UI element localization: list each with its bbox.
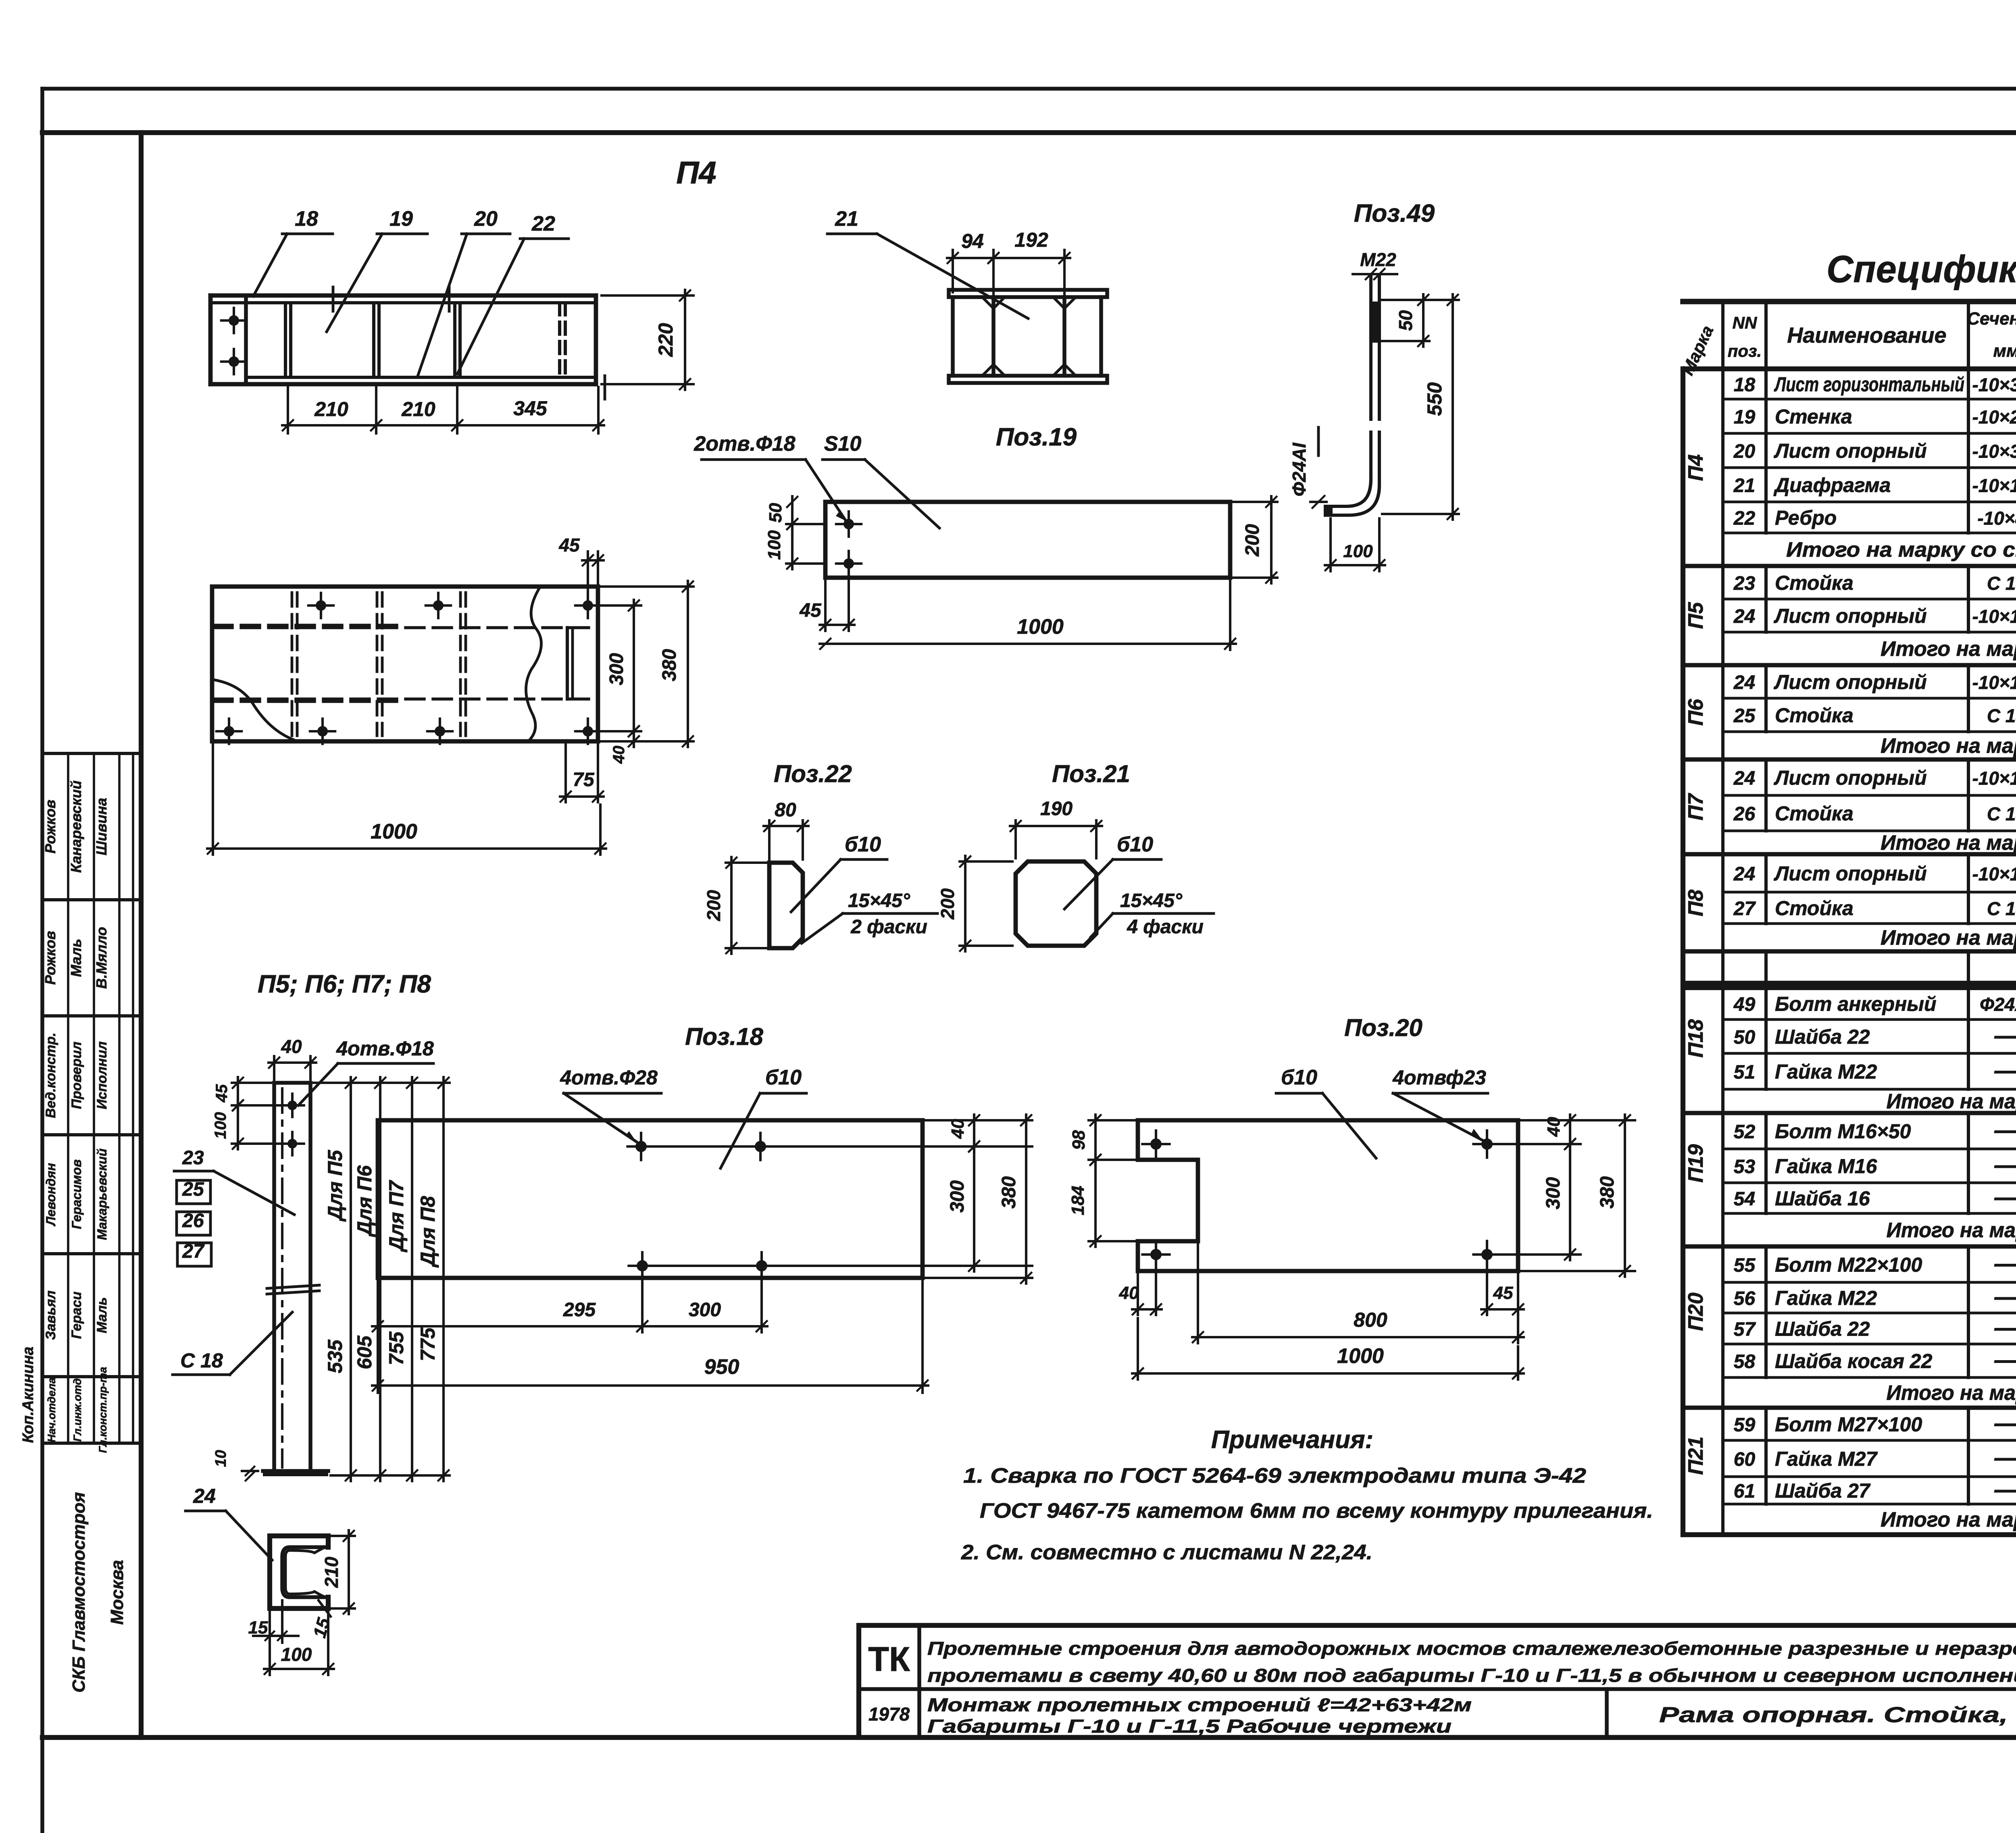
svg-text:53: 53 bbox=[1734, 1156, 1756, 1178]
svg-text:Рожков: Рожков bbox=[42, 931, 58, 985]
svg-text:23: 23 bbox=[1733, 573, 1756, 594]
svg-text:Левондян: Левондян bbox=[44, 1163, 58, 1226]
П5-П8 holes bbox=[281, 1094, 304, 1155]
svg-text:П5; П6; П7; П8: П5; П6; П7; П8 bbox=[258, 970, 431, 998]
svg-text:19: 19 bbox=[1734, 407, 1756, 428]
title block main title bbox=[927, 1638, 2016, 1686]
svg-text:—: — bbox=[1994, 1476, 2016, 1503]
svg-text:10: 10 bbox=[212, 1450, 229, 1467]
svg-text:21: 21 bbox=[835, 207, 858, 231]
leader 4отвф23 bbox=[1392, 1066, 1488, 1140]
organisation cell СКБ Главмостостроя Москва bbox=[69, 1492, 127, 1693]
svg-text:М22: М22 bbox=[1360, 249, 1396, 270]
svg-text:П7: П7 bbox=[1684, 793, 1708, 820]
svg-text:40: 40 bbox=[948, 1119, 968, 1139]
svg-text:380: 380 bbox=[659, 649, 680, 681]
svg-text:75: 75 bbox=[573, 769, 595, 791]
svg-text:б10: б10 bbox=[1117, 833, 1153, 856]
Марка column labels bbox=[1684, 454, 1708, 1475]
svg-text:23: 23 bbox=[182, 1147, 204, 1169]
svg-text:80: 80 bbox=[775, 799, 796, 821]
leader б10 Поз.22 bbox=[791, 833, 887, 912]
leader 4отв.Ф28 bbox=[560, 1066, 661, 1142]
dimension 190 Поз.21 bbox=[1010, 798, 1102, 858]
svg-text:Для П8: Для П8 bbox=[417, 1196, 439, 1268]
svg-text:Поз.19: Поз.19 bbox=[996, 423, 1077, 451]
svg-text:Болт М27×100: Болт М27×100 bbox=[1775, 1413, 1922, 1436]
svg-text:—: — bbox=[1994, 1151, 2016, 1178]
dimension 45 Поз.19 bbox=[799, 570, 854, 631]
leader 21 bbox=[827, 207, 1028, 318]
svg-text:345: 345 bbox=[513, 397, 548, 420]
svg-text:поз.: поз. bbox=[1728, 341, 1762, 360]
svg-text:18: 18 bbox=[1734, 375, 1756, 396]
svg-text:-10×190: -10×190 bbox=[1972, 475, 2016, 496]
svg-text:Итого на марку:: Итого на марку: bbox=[1881, 637, 2016, 661]
svg-text:192: 192 bbox=[1014, 229, 1048, 251]
П5-П8 column outline bbox=[274, 1083, 310, 1471]
svg-text:45: 45 bbox=[558, 535, 580, 556]
svg-text:Проверил: Проверил bbox=[69, 1042, 84, 1109]
svg-text:Лист опорный: Лист опорный bbox=[1774, 671, 1927, 693]
svg-text:50: 50 bbox=[1395, 310, 1416, 331]
svg-text:57: 57 bbox=[1734, 1319, 1756, 1340]
dimensions 295/300 bottom of Поз.18 bbox=[372, 1273, 767, 1393]
svg-text:24: 24 bbox=[1733, 863, 1755, 885]
svg-text:Гайка М22: Гайка М22 bbox=[1775, 1287, 1877, 1309]
dimensions 15/15 (channel) bbox=[248, 1600, 334, 1643]
svg-text:100: 100 bbox=[1343, 541, 1373, 561]
svg-text:49: 49 bbox=[1733, 994, 1756, 1015]
svg-text:Наименование: Наименование bbox=[1787, 323, 1946, 347]
svg-text:Шайба косая 22: Шайба косая 22 bbox=[1775, 1350, 1933, 1373]
П4 weld tick marks bbox=[333, 287, 605, 399]
svg-text:Нач.отдела: Нач.отдела bbox=[46, 1377, 58, 1442]
svg-text:210: 210 bbox=[314, 398, 348, 420]
svg-text:26: 26 bbox=[182, 1210, 204, 1232]
svg-text:С 18: С 18 bbox=[1987, 573, 2016, 594]
svg-text:45: 45 bbox=[213, 1084, 231, 1103]
svg-text:П4: П4 bbox=[676, 155, 716, 190]
specification table header bbox=[1678, 302, 2016, 378]
leader б10 Поз.18 bbox=[721, 1066, 806, 1168]
svg-text:54: 54 bbox=[1734, 1188, 1755, 1210]
title block frame bbox=[859, 1625, 2016, 1737]
П4 plan holes bbox=[217, 593, 600, 744]
dimension 80 Поз.22 bbox=[764, 799, 808, 859]
svg-text:Поз.22: Поз.22 bbox=[774, 760, 852, 787]
svg-text:Лист горизонтальный: Лист горизонтальный bbox=[1774, 373, 1964, 396]
П4 plan view outline bbox=[212, 587, 598, 741]
svg-text:4отв.Ф28: 4отв.Ф28 bbox=[560, 1066, 658, 1089]
svg-text:Поз.21: Поз.21 bbox=[1052, 760, 1130, 787]
dimension ladder Для П5..П8 bbox=[314, 1077, 450, 1481]
dimension 100 (foot) bbox=[1325, 518, 1385, 571]
dimension 94/192 bbox=[947, 229, 1070, 294]
svg-text:100: 100 bbox=[212, 1112, 229, 1139]
dimension 210 (channel) bbox=[321, 1530, 355, 1614]
svg-text:Болт анкерный: Болт анкерный bbox=[1775, 993, 1937, 1015]
svg-text:Коп.Акинина: Коп.Акинина bbox=[20, 1346, 37, 1443]
svg-text:Итого на марку: Итого на марку bbox=[1887, 1090, 2016, 1113]
svg-text:605: 605 bbox=[353, 1335, 376, 1369]
svg-text:Вед.констр.: Вед.констр. bbox=[43, 1032, 58, 1118]
svg-text:2. См. совместно с листами N 2: 2. См. совместно с листами N 22,24. bbox=[961, 1541, 1372, 1564]
svg-text:2 фаски: 2 фаски bbox=[850, 916, 927, 938]
svg-text:—: — bbox=[1994, 1022, 2016, 1049]
svg-text:21: 21 bbox=[1733, 475, 1755, 497]
svg-text:Лист опорный: Лист опорный bbox=[1774, 440, 1927, 462]
svg-text:950: 950 bbox=[704, 1355, 739, 1379]
svg-text:51: 51 bbox=[1734, 1062, 1755, 1083]
svg-text:С 18: С 18 bbox=[1987, 705, 2016, 726]
svg-text:22: 22 bbox=[1733, 508, 1756, 529]
leader 19 bbox=[327, 207, 427, 332]
svg-text:Рама опорная. Стойка, Марки. Д: Рама опорная. Стойка, Марки. Детали bbox=[1659, 1703, 2016, 1727]
svg-text:-10×100: -10×100 bbox=[1972, 672, 2016, 693]
labels 23/25/26/27 bbox=[174, 1147, 294, 1266]
П4 end plate holes bbox=[221, 308, 246, 374]
leader 24 bbox=[185, 1485, 272, 1560]
svg-text:20: 20 bbox=[474, 207, 498, 231]
svg-text:ГОСТ 9467-75 катетом 6мм по вс: ГОСТ 9467-75 катетом 6мм по всему контур… bbox=[980, 1499, 1653, 1523]
dimension 10 (base) bbox=[212, 1450, 258, 1481]
svg-text:Гайка М22: Гайка М22 bbox=[1775, 1061, 1877, 1083]
dimension 50/100 left of Поз.19 bbox=[764, 496, 823, 569]
svg-text:40: 40 bbox=[281, 1036, 302, 1057]
svg-text:2отв.Ф18: 2отв.Ф18 bbox=[694, 432, 795, 456]
leader 2отв.Ф18 bbox=[694, 432, 846, 521]
dimension 45/100 П5-П8 bbox=[212, 1077, 287, 1149]
leader С18 bbox=[173, 1312, 292, 1375]
svg-text:Монтаж пролетных строений ℓ=42: Монтаж пролетных строений ℓ=42+63+42м bbox=[927, 1694, 1472, 1715]
svg-text:184: 184 bbox=[1068, 1186, 1088, 1215]
svg-text:В.Мялло: В.Мялло bbox=[93, 927, 110, 989]
svg-text:Стойка: Стойка bbox=[1775, 897, 1854, 920]
П5-П8 break mark bbox=[267, 1285, 319, 1294]
svg-text:1. Сварка по ГОСТ 5264-69 эл: 1. Сварка по ГОСТ 5264-69 электродами ти… bbox=[963, 1464, 1586, 1488]
svg-text:NN: NN bbox=[1733, 313, 1758, 332]
dimension 300/380/40 (plan right) bbox=[595, 581, 694, 764]
svg-text:50: 50 bbox=[766, 503, 785, 522]
svg-text:Рожков: Рожков bbox=[42, 800, 58, 854]
svg-text:Канаревский: Канаревский bbox=[68, 780, 84, 873]
title block subtitle bbox=[927, 1694, 1472, 1737]
svg-text:—: — bbox=[1994, 1117, 2016, 1144]
svg-text:200: 200 bbox=[703, 890, 724, 921]
svg-text:П5: П5 bbox=[1684, 602, 1708, 629]
svg-text:Итого на марку:: Итого на марку: bbox=[1881, 734, 2016, 758]
svg-text:П6: П6 bbox=[1684, 699, 1708, 726]
svg-text:б10: б10 bbox=[845, 833, 881, 856]
specification table block П18-П21 grid bbox=[1683, 988, 2016, 1535]
svg-text:Для П7: Для П7 bbox=[385, 1180, 408, 1253]
svg-text:15×45°: 15×45° bbox=[848, 890, 910, 911]
svg-text:Примечания:: Примечания: bbox=[1211, 1426, 1373, 1454]
leader 22 bbox=[457, 212, 569, 374]
svg-text:—: — bbox=[1994, 1184, 2016, 1211]
svg-text:Ф24АI: Ф24АI bbox=[1980, 994, 2016, 1015]
svg-text:-10×100: -10×100 bbox=[1972, 863, 2016, 884]
svg-text:220: 220 bbox=[654, 323, 677, 357]
svg-text:П18: П18 bbox=[1684, 1019, 1708, 1057]
dimension 40 П5-П8 bbox=[269, 1036, 316, 1080]
svg-text:Герасимов: Герасимов bbox=[69, 1159, 84, 1229]
svg-text:Завьял: Завьял bbox=[43, 1290, 58, 1340]
svg-text:Стенка: Стенка bbox=[1775, 406, 1852, 428]
leader 18 bbox=[253, 207, 333, 296]
svg-text:—: — bbox=[1994, 1250, 2016, 1277]
svg-text:—: — bbox=[1994, 1346, 2016, 1373]
svg-text:190: 190 bbox=[1040, 798, 1073, 820]
П4 end view section bbox=[949, 290, 1107, 383]
dimension 550 bbox=[1382, 294, 1459, 520]
П4 plan hidden beam edges bbox=[214, 625, 596, 701]
svg-text:Лист опорный: Лист опорный bbox=[1774, 767, 1927, 789]
dimension 200 Поз.22 bbox=[703, 857, 766, 954]
svg-text:Ф24АI: Ф24АI bbox=[1289, 442, 1310, 496]
svg-text:60: 60 bbox=[1734, 1449, 1756, 1470]
specification table block П4-П8 grid bbox=[1683, 369, 2016, 983]
svg-text:Маль: Маль bbox=[94, 1297, 110, 1333]
svg-text:—: — bbox=[1994, 1314, 2016, 1341]
svg-text:56: 56 bbox=[1734, 1288, 1756, 1309]
svg-text:25: 25 bbox=[182, 1179, 204, 1200]
П4 stiffeners bbox=[285, 303, 565, 377]
svg-text:Стойка: Стойка bbox=[1775, 802, 1854, 825]
dimension 45 (plan top right) bbox=[558, 535, 604, 600]
svg-text:61: 61 bbox=[1734, 1481, 1755, 1502]
svg-text:45: 45 bbox=[799, 600, 822, 621]
svg-text:Диафрагма: Диафрагма bbox=[1773, 474, 1891, 497]
svg-text:Лист опорный: Лист опорный bbox=[1774, 862, 1927, 885]
svg-text:Итого на марку со сварными шва: Итого на марку со сварными швами: bbox=[1786, 538, 2016, 562]
svg-text:Итого на марку: Итого на марку bbox=[1887, 1219, 2016, 1242]
svg-text:4отв.Ф18: 4отв.Ф18 bbox=[336, 1037, 434, 1060]
svg-text:24: 24 bbox=[193, 1485, 216, 1507]
svg-text:-10×100: -10×100 bbox=[1972, 606, 2016, 627]
svg-text:—: — bbox=[1994, 1283, 2016, 1310]
notes Примечания bbox=[961, 1426, 1653, 1564]
svg-text:С 18: С 18 bbox=[180, 1349, 223, 1372]
Поз.49 bolt shaft bbox=[1324, 275, 1380, 517]
svg-text:Сечение,: Сечение, bbox=[1967, 309, 2016, 329]
Поз.20 holes bbox=[1142, 1130, 1500, 1268]
svg-text:24: 24 bbox=[1733, 672, 1755, 693]
svg-text:775: 775 bbox=[417, 1327, 439, 1361]
svg-text:Болт М22×100: Болт М22×100 bbox=[1775, 1254, 1922, 1276]
Поз.21 plate outline bbox=[1016, 861, 1096, 946]
П4 plan hidden stiffeners bbox=[292, 593, 573, 736]
Поз.18 plate outline bbox=[378, 1120, 923, 1278]
П4 plan break lines bbox=[215, 587, 541, 741]
svg-text:Итого на марку: Итого на марку bbox=[1887, 1382, 2016, 1405]
svg-text:25: 25 bbox=[1733, 705, 1756, 727]
svg-text:210: 210 bbox=[401, 398, 435, 420]
svg-text:1978: 1978 bbox=[868, 1704, 910, 1725]
П5-П8 base plate bbox=[263, 1471, 328, 1476]
dimension 200 Поз.21 bbox=[937, 856, 1012, 951]
svg-text:40: 40 bbox=[610, 746, 628, 764]
svg-text:15: 15 bbox=[310, 1616, 334, 1640]
svg-text:ТК: ТК bbox=[868, 1640, 910, 1679]
svg-text:-10×200: -10×200 bbox=[1972, 407, 2016, 428]
dimensions 40/300/380 right of Поз.18 bbox=[647, 1115, 1032, 1284]
svg-text:24: 24 bbox=[1733, 768, 1755, 789]
leader б10 Поз.20 bbox=[1276, 1066, 1376, 1158]
svg-text:С 18: С 18 bbox=[1987, 898, 2016, 919]
svg-text:Гл.инж.отд: Гл.инж.отд bbox=[71, 1378, 83, 1442]
svg-text:Поз.18: Поз.18 bbox=[685, 1023, 763, 1050]
leader б10 Поз.21 bbox=[1064, 833, 1161, 909]
svg-text:1000: 1000 bbox=[371, 820, 417, 843]
svg-text:Для П5: Для П5 bbox=[324, 1150, 346, 1222]
Поз.22 plate outline bbox=[769, 863, 803, 948]
svg-text:300: 300 bbox=[947, 1180, 968, 1213]
svg-text:380: 380 bbox=[998, 1176, 1020, 1209]
svg-text:300: 300 bbox=[1543, 1177, 1564, 1209]
dimension 100 (channel) bbox=[264, 1612, 334, 1675]
Поз.18 holes bbox=[627, 1133, 775, 1279]
svg-text:40: 40 bbox=[1119, 1283, 1139, 1303]
svg-text:50: 50 bbox=[1734, 1027, 1756, 1048]
svg-text:100: 100 bbox=[764, 530, 784, 560]
svg-text:26: 26 bbox=[1733, 803, 1756, 825]
dimension М22 bbox=[1353, 249, 1397, 279]
svg-text:Стойка: Стойка bbox=[1775, 704, 1854, 727]
dimension 210/210/345 under П4 bbox=[282, 387, 604, 433]
svg-text:Гайка М16: Гайка М16 bbox=[1775, 1155, 1877, 1178]
svg-text:Гераси: Гераси bbox=[69, 1292, 84, 1339]
svg-text:-10×380: -10×380 bbox=[1972, 375, 2016, 395]
svg-text:б10: б10 bbox=[1281, 1066, 1317, 1089]
svg-text:19: 19 bbox=[389, 207, 413, 231]
svg-text:П4: П4 bbox=[1684, 454, 1708, 481]
svg-text:15: 15 bbox=[248, 1618, 268, 1637]
svg-text:210: 210 bbox=[321, 1556, 342, 1588]
svg-text:Итого на марку:: Итого на марку: bbox=[1881, 831, 2016, 855]
leader 20 bbox=[418, 207, 510, 375]
dimension 200 Поз.19 bbox=[1233, 496, 1277, 583]
svg-text:Габариты Г-10 и Г-11,5 Рабо: Габариты Г-10 и Г-11,5 Рабочие чертежи bbox=[927, 1716, 1452, 1737]
dimension 800 Поз.20 bbox=[1192, 1244, 1524, 1343]
svg-text:Исполнил: Исполнил bbox=[94, 1041, 110, 1109]
svg-text:20: 20 bbox=[1733, 441, 1756, 462]
dimensions 40/45 bottom of Поз.20 bbox=[1119, 1261, 1524, 1315]
svg-text:300: 300 bbox=[689, 1299, 721, 1321]
svg-text:СКБ Главмостостроя: СКБ Главмостостроя bbox=[69, 1492, 89, 1693]
svg-text:П19: П19 bbox=[1684, 1144, 1708, 1182]
Поз.19 plate outline bbox=[825, 502, 1230, 578]
svg-text:П20: П20 bbox=[1684, 1292, 1708, 1331]
dimension 220 right of П4 bbox=[602, 290, 694, 390]
leader S10 bbox=[823, 432, 939, 528]
svg-text:27: 27 bbox=[1733, 898, 1756, 920]
svg-text:800: 800 bbox=[1354, 1309, 1387, 1331]
svg-text:—: — bbox=[1994, 1410, 2016, 1437]
svg-text:94: 94 bbox=[961, 230, 984, 252]
svg-text:Поз.20: Поз.20 bbox=[1344, 1014, 1422, 1041]
signature stamp table (rotated) bbox=[42, 753, 141, 1453]
svg-text:Маль: Маль bbox=[68, 939, 84, 977]
svg-text:Поз.49: Поз.49 bbox=[1354, 200, 1435, 227]
svg-text:Шивина: Шивина bbox=[93, 798, 110, 855]
svg-text:мм: мм bbox=[1993, 341, 2016, 361]
Поз.19 holes bbox=[836, 512, 861, 576]
svg-text:98: 98 bbox=[1069, 1130, 1089, 1150]
dimension 50 (thread) bbox=[1382, 294, 1429, 347]
Поз.20 plate outline with notch bbox=[1138, 1120, 1518, 1271]
svg-text:755: 755 bbox=[385, 1331, 408, 1365]
dimensions 98/184 left of Поз.20 bbox=[1068, 1115, 1135, 1247]
svg-text:380: 380 bbox=[1597, 1176, 1618, 1209]
svg-text:Москва: Москва bbox=[107, 1560, 127, 1625]
svg-text:Гайка М27: Гайка М27 bbox=[1775, 1448, 1878, 1470]
dimension 950 Поз.18 bbox=[372, 1281, 928, 1393]
svg-text:-10×380: -10×380 bbox=[1972, 441, 2016, 462]
svg-text:18: 18 bbox=[295, 207, 318, 231]
svg-text:Стойка: Стойка bbox=[1775, 572, 1854, 594]
svg-text:-10×100: -10×100 bbox=[1972, 768, 2016, 789]
svg-text:Болт М16×50: Болт М16×50 bbox=[1775, 1120, 1911, 1143]
svg-text:295: 295 bbox=[563, 1299, 596, 1321]
svg-text:59: 59 bbox=[1734, 1415, 1756, 1436]
svg-text:Шайба 22: Шайба 22 bbox=[1775, 1318, 1870, 1340]
svg-text:200: 200 bbox=[937, 888, 958, 920]
svg-text:4 фаски: 4 фаски bbox=[1127, 916, 1204, 938]
svg-text:58: 58 bbox=[1734, 1351, 1756, 1373]
svg-text:Лист опорный: Лист опорный bbox=[1774, 605, 1927, 627]
svg-text:б10: б10 bbox=[765, 1066, 802, 1089]
svg-text:24: 24 bbox=[1733, 606, 1755, 627]
svg-text:Итого на марку:: Итого на марку: bbox=[1881, 926, 2016, 950]
svg-text:200: 200 bbox=[1242, 524, 1263, 557]
svg-text:Для П6: Для П6 bbox=[353, 1165, 376, 1238]
svg-text:535: 535 bbox=[324, 1339, 346, 1373]
svg-text:Ребро: Ребро bbox=[1775, 507, 1837, 529]
svg-text:Спецификация металла: Спецификация металла bbox=[1826, 248, 2016, 291]
svg-text:100: 100 bbox=[281, 1644, 312, 1665]
label Ф24АI bbox=[1289, 427, 1327, 508]
svg-text:—: — bbox=[1994, 1444, 2016, 1471]
svg-text:550: 550 bbox=[1423, 382, 1446, 416]
svg-text:15×45°: 15×45° bbox=[1120, 890, 1183, 911]
svg-text:1000: 1000 bbox=[1337, 1344, 1384, 1368]
svg-text:Шайба 27: Шайба 27 bbox=[1775, 1479, 1871, 1502]
svg-text:-10×80: -10×80 bbox=[1977, 508, 2016, 529]
label 15×45° 2 фаски Поз.22 bbox=[802, 890, 937, 943]
label 15×45° 4 фаски Поз.21 bbox=[1091, 890, 1214, 938]
svg-text:—: — bbox=[1994, 1057, 2016, 1084]
svg-text:55: 55 bbox=[1734, 1255, 1756, 1276]
П4 beam side view bbox=[210, 295, 596, 384]
svg-text:4отвф23: 4отвф23 bbox=[1392, 1066, 1486, 1089]
svg-text:45: 45 bbox=[1493, 1283, 1513, 1303]
leader 4отв.Ф18 П5-П8 bbox=[298, 1037, 434, 1105]
svg-text:Пролетные строения для автодор: Пролетные строения для автодорожных мост… bbox=[927, 1638, 2016, 1659]
svg-text:1000: 1000 bbox=[1017, 615, 1064, 639]
svg-text:П21: П21 bbox=[1684, 1436, 1708, 1475]
svg-text:П8: П8 bbox=[1684, 890, 1708, 916]
channel 24 section bbox=[270, 1536, 328, 1608]
svg-text:пролетами в свету 40,60 и 80м: пролетами в свету 40,60 и 80м под габари… bbox=[927, 1665, 2016, 1686]
dimension 1000 Поз.20 bbox=[1132, 1318, 1524, 1379]
dimension 75 (plan bottom) bbox=[560, 744, 604, 802]
svg-text:С 18: С 18 bbox=[1987, 803, 2016, 824]
svg-text:300: 300 bbox=[606, 653, 627, 685]
svg-text:Гл.конст.пр-та: Гл.конст.пр-та bbox=[97, 1367, 109, 1453]
svg-text:22: 22 bbox=[531, 212, 555, 235]
